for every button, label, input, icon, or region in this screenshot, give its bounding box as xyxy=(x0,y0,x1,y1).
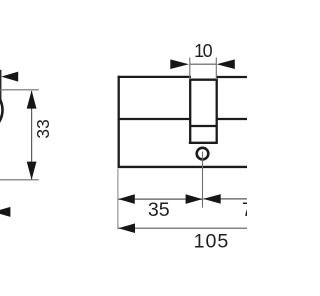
body mid parting line, right of cam xyxy=(217,118,247,120)
arrow of dim 35 (right end) xyxy=(186,194,203,204)
fixing screw hole circle xyxy=(197,148,209,160)
svg-text:105: 105 xyxy=(194,231,230,253)
profile width dimension arrow (top-left, points left) xyxy=(1,72,18,82)
cylinder body left edge xyxy=(118,76,120,168)
cam bottom edge xyxy=(189,142,218,144)
arrow of dim 70 (left end, points left) xyxy=(203,194,220,204)
profile circle arc (left view, cropped at image edge) xyxy=(0,88,3,132)
body mid parting line, left of cam xyxy=(118,118,190,120)
arrow up of dim 33 xyxy=(27,90,37,108)
arrow of dim 10 (left, points right) xyxy=(170,59,189,69)
cam section top edge xyxy=(189,79,218,81)
cam inner line xyxy=(190,125,217,127)
arrow of dim 10 (right, points left) xyxy=(217,59,235,69)
extension line top for dim 33 xyxy=(0,89,39,91)
dimension line 35 xyxy=(118,198,202,200)
profile view right-edge vertical line (left view, cropped) xyxy=(0,70,2,104)
svg-text:33: 33 xyxy=(33,119,53,138)
extension line right for dim 10 xyxy=(215,58,217,80)
cam section right edge xyxy=(216,79,218,144)
cylinder body top edge, left of cam xyxy=(118,76,191,78)
cylinder body top edge, right of cam xyxy=(216,76,247,78)
arrow down of dim 33 xyxy=(27,162,37,180)
svg-text:35: 35 xyxy=(148,199,170,221)
profile width dimension arrow (bottom-left, points left, tip cropped) xyxy=(0,207,10,217)
extension line from cam center through circle xyxy=(202,152,204,208)
extension line left for dim 10 xyxy=(189,58,191,80)
dimension line 10 xyxy=(190,63,217,65)
extension line bottom for dim 33 xyxy=(0,179,39,181)
svg-text:10: 10 xyxy=(194,41,212,61)
dimension line 33 (vertical) xyxy=(31,91,33,179)
extension line below body left edge xyxy=(117,169,119,230)
dimension line 70 (cut at right edge) xyxy=(203,198,247,200)
cam section left edge xyxy=(189,79,191,144)
arrow of dim 35 (left end) xyxy=(118,194,135,204)
arrow of dim 105 (left end, points left) xyxy=(118,223,135,233)
cylinder body bottom edge xyxy=(118,166,247,168)
svg-text:70: 70 xyxy=(242,199,247,221)
dimension line 105 (cut at right edge) xyxy=(118,227,247,229)
